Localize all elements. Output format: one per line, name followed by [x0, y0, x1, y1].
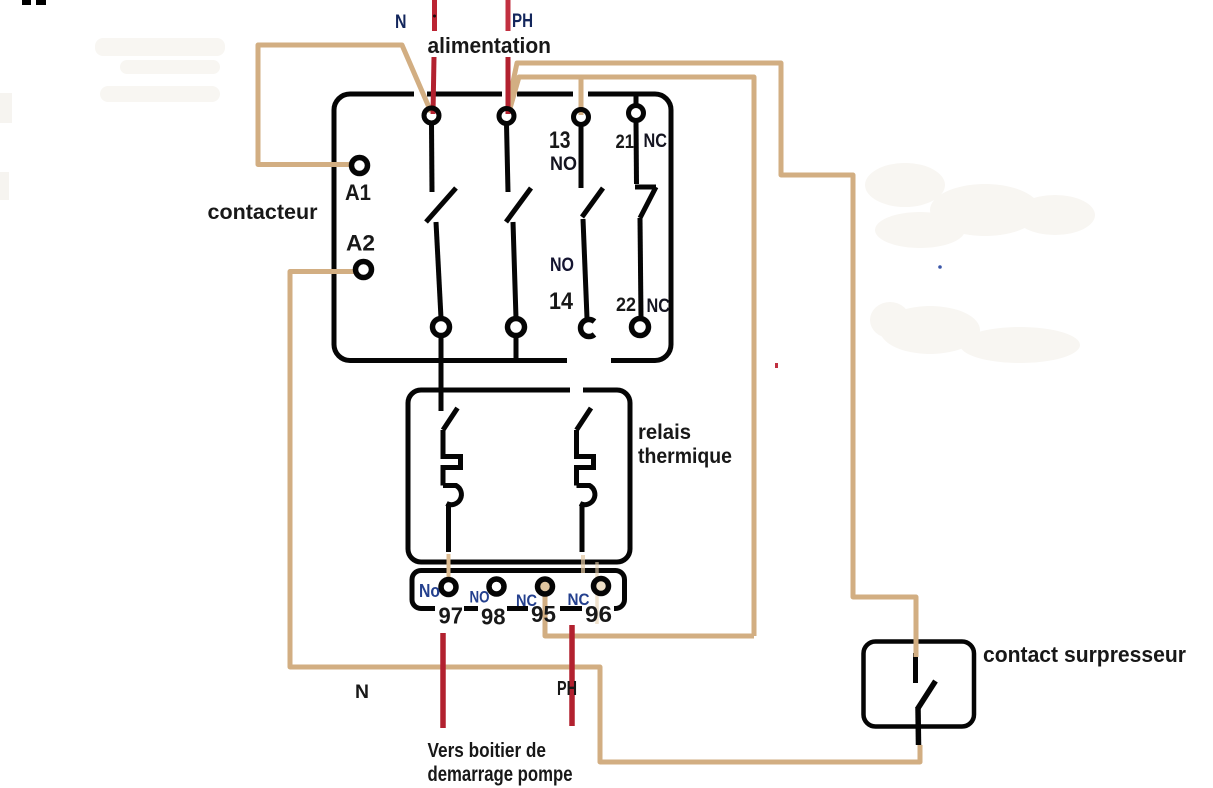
svg-text:21: 21	[616, 132, 635, 153]
svg-text:demarrage pompe: demarrage pompe	[428, 763, 573, 786]
terminal strip box	[412, 571, 625, 609]
terminal L1 top (N)	[424, 108, 439, 123]
wire: tan PH branch to 13 and down right side	[509, 77, 754, 636]
tiny dot on N wire	[433, 15, 436, 18]
svg-text:N: N	[355, 682, 369, 703]
gap in contactor top border at 13 wire	[573, 89, 588, 98]
light tan stub element to 97	[447, 554, 451, 578]
svg-text:N: N	[395, 12, 407, 33]
wire: red PH out of 95 to pump starter	[569, 625, 575, 726]
wire: red N supply lower segment	[433, 57, 434, 114]
faint left edge marks	[0, 93, 12, 123]
scan mark top-left corner	[22, 0, 31, 5]
terminal T2 bottom	[508, 319, 525, 336]
svg-text:contact surpresseur: contact surpresseur	[983, 642, 1186, 667]
svg-text:PH: PH	[512, 11, 533, 32]
terminal 22	[632, 319, 649, 336]
wire: red PH supply upper segment	[506, 0, 511, 31]
terminal T1 bottom	[433, 319, 450, 336]
terminal L2 top (PH)	[499, 109, 514, 124]
svg-text:22: 22	[616, 295, 636, 316]
thermal element right	[577, 408, 592, 430]
gap in contactor top border at N wire	[414, 89, 427, 98]
coil terminal A1	[352, 158, 368, 174]
wire: tan PH to contact surpresseur top (outer run)	[507, 63, 916, 657]
thermal element left	[443, 408, 458, 430]
svg-text:A1: A1	[345, 180, 371, 205]
faint tan stub below 96	[595, 592, 599, 624]
svg-text:PH: PH	[557, 678, 577, 700]
svg-text:13: 13	[549, 127, 571, 154]
wire: red PH supply lower segment	[506, 57, 511, 114]
tiny red dash near relay	[775, 363, 778, 368]
wire: red N supply upper segment	[432, 0, 437, 31]
svg-text:relais: relais	[638, 421, 691, 444]
light tan stub under right element	[581, 555, 585, 573]
svg-text:NC: NC	[647, 296, 671, 317]
contactor NC contact 21-22	[634, 93, 639, 107]
wire: tan 95 to right-side vertical	[545, 596, 754, 636]
strip terminal 96	[594, 579, 609, 594]
svg-text:98: 98	[481, 604, 506, 630]
contactor box	[334, 94, 671, 361]
wire: tan stub from branch into terminal 13	[579, 79, 584, 115]
svg-text:No: No	[419, 581, 440, 601]
contactor pole 2 contact	[507, 124, 509, 192]
faint smudge artifacts top-left	[95, 38, 225, 102]
svg-text:97: 97	[439, 603, 464, 629]
faint ghost blobs right side	[865, 163, 1095, 363]
svg-text:NO: NO	[550, 154, 577, 175]
wire: tan N-supply to A1 (top-left loop)	[258, 45, 431, 165]
coil terminal A2	[356, 262, 372, 278]
gap in contactor top border at PH wire	[502, 89, 517, 98]
contact surpresseur switch	[913, 653, 918, 683]
svg-text:NO: NO	[550, 255, 574, 276]
faint tan stub above 96	[595, 562, 599, 580]
strip terminal 98	[489, 579, 504, 594]
svg-text:alimentation: alimentation	[428, 33, 552, 58]
thermal relay box	[408, 390, 630, 562]
svg-text:Vers boitier de: Vers boitier de	[428, 740, 547, 762]
wire: black T1 bottom to thermal relay	[439, 335, 444, 411]
svg-text:96: 96	[585, 601, 612, 627]
svg-text:NC: NC	[644, 131, 668, 152]
wire: tan A2 to contact surpresseur bottom	[290, 272, 920, 763]
terminal 13	[574, 110, 589, 125]
gap in contactor bottom border	[567, 356, 611, 366]
svg-text:thermique: thermique	[638, 445, 732, 468]
contact surpresseur box	[864, 642, 975, 727]
svg-text:A2: A2	[346, 231, 375, 256]
white gaps in strip bottom border for numbers	[435, 604, 464, 615]
wire: black T2 bottom stub	[514, 335, 519, 359]
strip terminal 97	[441, 580, 456, 595]
wire: red N out of 97 to pump starter	[440, 633, 446, 728]
contactor NO contact 13-14	[579, 125, 584, 188]
contactor pole 1 contact	[429, 124, 435, 192]
tiny blue dot right side	[938, 265, 942, 269]
svg-text:95: 95	[531, 601, 556, 627]
strip terminal 95	[538, 579, 553, 594]
svg-text:14: 14	[549, 288, 574, 315]
terminal 14 (open C)	[581, 320, 595, 337]
terminal 21	[629, 106, 644, 121]
gap in relay top border	[570, 386, 583, 394]
svg-text:contacteur: contacteur	[208, 201, 318, 224]
